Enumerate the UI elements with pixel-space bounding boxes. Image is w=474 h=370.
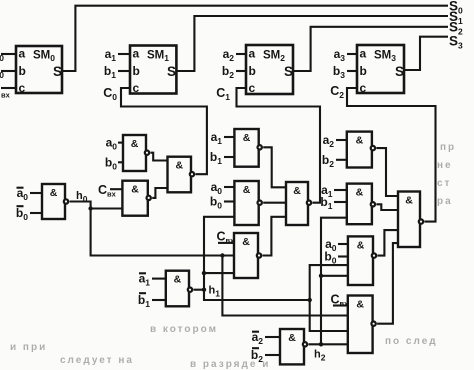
svg-text:a0: a0 — [106, 136, 118, 152]
wire a2n to H2 — [265, 336, 280, 338]
svg-text:a0: a0 — [0, 47, 4, 63]
svg-text:h2: h2 — [314, 349, 326, 363]
wire b1 to SM1 — [118, 70, 130, 72]
svg-text:SM0: SM0 — [33, 49, 55, 63]
wire h0 down to gate C1X3 — [91, 209, 234, 256]
nand gate H0 (a0 OR b0) — [42, 184, 68, 219]
svg-text:в котором: в котором — [150, 324, 218, 335]
wire C1X1 output to C1X4 — [263, 147, 286, 187]
svg-text:&: & — [243, 184, 251, 196]
wire C2X4 output to C2X5 — [377, 243, 398, 324]
wire C1X2 output to C1X4 — [263, 202, 286, 204]
nand gate C1X2 (a0 b0 h1) — [234, 181, 262, 225]
label a2 inverted — [252, 330, 264, 346]
svg-text:h1: h1 — [209, 285, 221, 299]
label a0 inverted — [17, 186, 29, 202]
svg-text:a2: a2 — [223, 47, 235, 63]
wire h1 up to gate C1X2 — [204, 217, 234, 290]
svg-text:&: & — [131, 184, 139, 196]
svg-text:ст: ст — [437, 178, 451, 189]
svg-text:&: & — [357, 239, 365, 251]
wire b2 to C2X1 — [336, 159, 347, 161]
faint page bleed-through — [10, 142, 456, 370]
wire b1 to C2X2 — [334, 201, 347, 203]
svg-text:b0: b0 — [210, 195, 222, 211]
node h0 branch — [88, 206, 92, 210]
svg-text:вх: вх — [1, 91, 11, 100]
wire C2X3 output to C2X5 — [378, 230, 399, 256]
wire a1 to C1X1 — [224, 136, 234, 138]
svg-text:&: & — [356, 187, 364, 199]
svg-text:&: & — [176, 160, 184, 172]
svg-text:a3: a3 — [334, 47, 346, 63]
wire b0 to C2X3 — [338, 255, 348, 257]
wire C0X1 output to C0X3 — [151, 153, 168, 161]
wire h1 down and right — [204, 290, 310, 300]
wire a1 to C2X2 — [334, 189, 347, 191]
svg-text:b0: b0 — [105, 155, 117, 171]
svg-text:&: & — [50, 187, 58, 199]
svg-text:a1: a1 — [211, 130, 223, 146]
wire a1n to H1 — [152, 278, 166, 280]
wire a2 to SM2 — [236, 53, 246, 55]
nand gate C2X4 (Cin h0 h1 h2) — [348, 296, 376, 354]
label a1 inverted — [139, 272, 151, 288]
label b1 inverted — [138, 293, 150, 309]
wire C2 route to SM3 c — [347, 88, 436, 222]
svg-text:b2: b2 — [322, 153, 334, 169]
wire S output of SM2 to line S2 — [293, 27, 448, 71]
svg-text:&: & — [293, 185, 301, 197]
svg-text:следует на: следует на — [60, 355, 134, 366]
svg-text:b: b — [360, 64, 367, 78]
nand gate C0X3 (carry C0) — [168, 157, 195, 193]
svg-text:&: & — [243, 132, 251, 144]
svg-text:&: & — [131, 138, 139, 150]
svg-text:c: c — [133, 81, 140, 95]
wire h0 down to gate C2X4 — [222, 256, 347, 316]
svg-text:C2: C2 — [330, 84, 344, 100]
svg-text:b: b — [249, 64, 256, 78]
svg-text:b: b — [19, 64, 26, 78]
svg-text:&: & — [288, 332, 296, 344]
wire C2X1 output to C2X5 — [376, 148, 398, 196]
wire h2 branch to gate C2X3 — [321, 275, 348, 277]
wire h1 branch to gate C1X3 — [204, 272, 234, 274]
nand gate C2X3 (a0 b0 h1 h2) — [348, 236, 376, 285]
wire b0n to H0 — [30, 212, 42, 214]
wire a0n to H0 — [30, 192, 42, 194]
svg-text:b0: b0 — [0, 64, 4, 80]
wire a2 to C2X1 — [336, 139, 347, 141]
sum module SM2 — [246, 45, 293, 95]
nand gate C1X3 (Cin h0 h1) — [234, 233, 261, 278]
svg-text:b: b — [133, 64, 140, 78]
nand gate C0X1 (a0 b0) — [123, 135, 149, 171]
svg-text:b2: b2 — [222, 64, 234, 80]
svg-text:SM2: SM2 — [263, 49, 285, 63]
wire h1 down to gate C2X4 — [310, 300, 348, 331]
svg-text:b1: b1 — [138, 293, 150, 309]
wire a3 to SM3 — [347, 53, 357, 55]
svg-text:S: S — [53, 64, 62, 79]
node h1 branch to C1X3 — [202, 271, 206, 275]
wire Cin to C2X4 — [333, 304, 348, 306]
nand gate C2X2 (a1 b1 h2) — [347, 184, 375, 225]
sum module SM1 — [130, 46, 176, 96]
wire a0 to C2X3 — [338, 243, 348, 245]
svg-text:&: & — [356, 299, 364, 311]
wire Cin to C0X2 — [110, 188, 122, 190]
svg-text:c: c — [249, 81, 256, 95]
nand gate C2X1 (a2 b2) — [347, 132, 375, 168]
node h1 junction right — [308, 298, 312, 302]
wire h1 output to junction — [194, 289, 205, 291]
node h2 branch to C2X3 — [319, 274, 323, 278]
wire S output of SM1 to line S1 — [176, 16, 448, 71]
svg-text:Cвх: Cвх — [98, 183, 117, 199]
wire a0 to C1X2 — [224, 186, 234, 188]
svg-text:a: a — [360, 47, 367, 61]
svg-text:ра: ра — [437, 196, 453, 207]
svg-text:a: a — [249, 47, 256, 61]
svg-text:SM3: SM3 — [374, 49, 396, 63]
node h1 junction — [202, 288, 206, 292]
svg-text:b1: b1 — [210, 150, 222, 166]
wire C0 route to SM1 c — [121, 88, 207, 174]
wire b3 to SM3 — [347, 70, 357, 72]
svg-text:c: c — [19, 81, 26, 95]
svg-text:c: c — [360, 81, 367, 95]
svg-text:&: & — [242, 236, 250, 248]
svg-text:пр: пр — [440, 142, 456, 153]
wire b2n to H2 — [265, 354, 280, 356]
wire C2X2 output to C2X5 — [376, 204, 398, 210]
label b0 inverted — [16, 206, 28, 222]
svg-text:S: S — [284, 64, 293, 79]
wire b0 to C1X2 — [224, 200, 234, 202]
svg-text:b1: b1 — [104, 64, 116, 80]
sum module SM0 — [16, 46, 62, 95]
svg-text:a: a — [133, 47, 140, 61]
svg-text:C1: C1 — [216, 86, 230, 102]
wire b1n to H1 — [152, 299, 166, 301]
svg-text:C0: C0 — [103, 86, 117, 102]
label b2 inverted — [251, 348, 263, 364]
wire input b0 to SM0 — [1, 70, 16, 72]
wire h1 up to gate C2X3 — [310, 265, 348, 300]
nand gate H1 (a1 OR b1) — [166, 271, 192, 307]
svg-text:a1: a1 — [105, 47, 117, 63]
svg-text:SM1: SM1 — [147, 49, 169, 63]
wire h0 output to gate C0X2 — [70, 202, 123, 209]
wire b2 to SM2 — [236, 70, 246, 72]
sum module SM3 — [357, 45, 404, 95]
nand gate C1X1 (a1 b1) — [234, 129, 262, 167]
nand gate C0X2 (Cin h0) — [122, 181, 150, 216]
svg-text:S: S — [395, 64, 404, 79]
nand gate C1X4 (carry C1) — [286, 182, 311, 225]
svg-text:a: a — [19, 47, 26, 61]
wire input Cin to SM0 — [1, 87, 16, 89]
svg-text:&: & — [174, 274, 182, 286]
svg-text:b3: b3 — [333, 64, 345, 80]
svg-text:и при: и при — [10, 342, 47, 353]
wire h2 rail up to gate C2X2 — [321, 218, 347, 345]
svg-text:по след: по след — [385, 336, 438, 347]
wire S output of SM3 to line S3 — [404, 37, 448, 70]
wire a1 to SM1 — [118, 53, 130, 55]
wire b0 to C0X1 — [118, 161, 123, 163]
svg-text:S: S — [167, 64, 176, 79]
svg-text:&: & — [405, 195, 413, 207]
wire a0 to C0X1 — [118, 142, 123, 144]
svg-text:в разряде и: в разряде и — [190, 359, 270, 370]
wire C0X2 output to C0X3 — [152, 188, 167, 198]
nand gate C2X5 (carry C2) — [398, 192, 423, 248]
wire input a0 to SM0 — [1, 53, 16, 55]
wire S output of SM0 to line S0 — [62, 6, 448, 71]
svg-text:a2: a2 — [323, 133, 335, 149]
wire h2 output to gate C2X4 — [309, 343, 348, 345]
wire C1X3 output to C1X4 — [263, 217, 287, 256]
svg-text:&: & — [356, 135, 364, 147]
svg-text:не: не — [437, 160, 453, 171]
wire b1 to C1X1 — [224, 156, 234, 158]
wire Cin to C1X3 — [218, 242, 234, 244]
node h2 junction — [319, 342, 323, 346]
nand gate H2 (a2 OR b2) — [280, 329, 307, 364]
wire C1 route to SM2 c — [237, 88, 321, 203]
svg-text:b0: b0 — [16, 206, 28, 222]
node h0 branch 2 — [220, 253, 224, 257]
